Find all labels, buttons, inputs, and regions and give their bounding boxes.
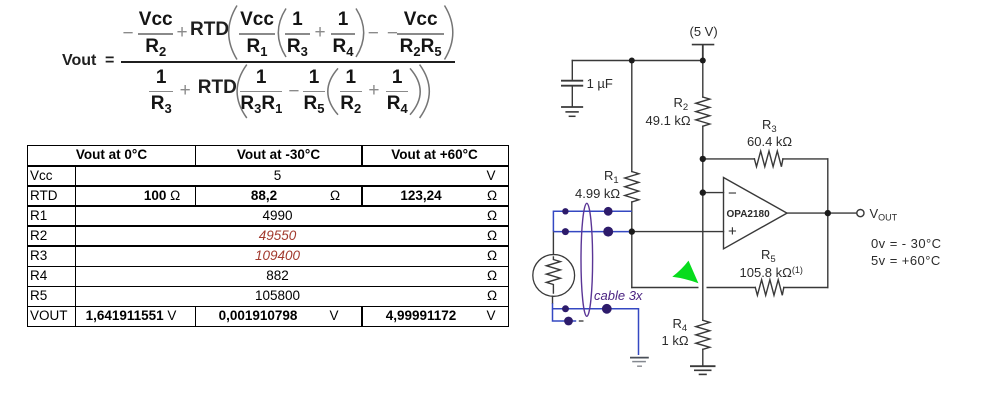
node output	[825, 210, 831, 216]
resistor R5 105.8k (horizontal) + feedback wires	[707, 213, 828, 295]
row labels	[30, 166, 53, 186]
ground (R4)	[691, 366, 715, 374]
resistor R4 1k (vertical)	[696, 320, 710, 366]
R5 row	[255, 286, 300, 306]
wire return (blue)	[553, 303, 639, 355]
cable junction dots (purple)	[562, 207, 613, 325]
R3 row	[255, 246, 300, 266]
wire plus node down to R5	[632, 232, 698, 288]
label opamp minus	[728, 187, 737, 200]
label opamp plus	[728, 225, 737, 238]
label VOUT	[870, 207, 898, 225]
node rail/R1	[629, 58, 635, 64]
denominator	[149, 68, 173, 115]
main fraction bar	[121, 61, 455, 63]
numerator	[123, 24, 134, 44]
node minus input	[700, 189, 706, 195]
output terminal circle	[857, 210, 864, 217]
blue sensor wires	[553, 211, 639, 355]
outer border	[27, 145, 509, 328]
node plus input	[629, 228, 635, 234]
probe arrow (green)	[672, 261, 698, 284]
ground (cable shield, blue-gray)	[630, 358, 649, 367]
label 1 uF	[587, 77, 613, 90]
parentheses drawn in SVG	[0, 0, 470, 130]
wire R2 bottom to node	[702, 126, 704, 159]
header texts	[76, 145, 147, 165]
VOUT row	[86, 306, 177, 326]
horizontal lines	[27, 165, 508, 167]
dash after spare stub	[579, 320, 584, 322]
label (5 V)	[690, 25, 718, 38]
power symbol (5 V)	[693, 45, 714, 61]
node R2/R3	[700, 156, 706, 162]
junction dots	[629, 58, 831, 235]
vertical separators col1/col2 and col2/col3 : header, RTD, VOUT rows	[195, 145, 197, 166]
wire plus input	[632, 231, 724, 233]
label R5	[761, 248, 776, 266]
label R4	[673, 317, 688, 335]
label R3	[762, 118, 777, 136]
resistor R1 4.99k (vertical)	[625, 61, 639, 232]
wire spare stub (blue)	[553, 309, 577, 321]
capacitor C1 1uF	[562, 61, 582, 107]
Vcc row	[274, 166, 282, 186]
wire sense 1 (blue)	[553, 211, 631, 231]
label cable 3x	[594, 289, 642, 302]
wire minus input stub	[703, 192, 724, 194]
ground (capacitor)	[562, 107, 582, 116]
cable ellipse	[581, 203, 593, 316]
label output scale	[871, 237, 941, 250]
R1 row	[262, 206, 292, 226]
wire output	[787, 212, 857, 214]
resistor R3 60.4k (horizontal) + wires	[703, 151, 828, 213]
label R2	[674, 96, 689, 114]
RTD sensor (circle with element)	[533, 231, 575, 303]
resistor R2 49.1k (vertical)	[696, 61, 710, 127]
R2 row	[259, 226, 297, 246]
node rail/R2	[700, 58, 706, 64]
R4 row	[266, 266, 289, 286]
RTD row	[144, 186, 180, 206]
op-amp U1 OPA2180	[724, 178, 788, 249]
wire top rail	[572, 60, 703, 62]
wire node to minus input level	[702, 159, 704, 320]
wire sense 2 (blue)	[553, 231, 629, 233]
label OPA2180	[727, 208, 770, 221]
label R1	[604, 169, 619, 187]
vertical line after label column (data rows only)	[75, 165, 77, 326]
